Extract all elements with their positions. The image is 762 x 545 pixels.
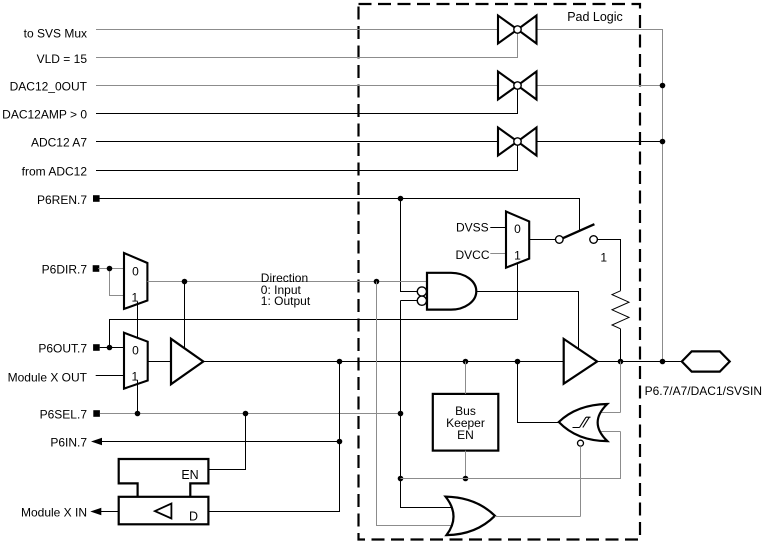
enable bubble of U3 <box>578 440 584 446</box>
wire: P6OUT.7 to mux input 0 <box>100 347 124 349</box>
wire: analog bus vertical to pad node <box>662 29 664 362</box>
mux M3 (pull-up/pull-down select) <box>506 212 529 268</box>
junction dot analog bus/pad row <box>660 359 666 365</box>
wire: from ADC12 control row up to T3 gate <box>96 145 518 170</box>
svg-text:VLD = 15: VLD = 15 <box>37 52 88 66</box>
mux M1 (P6DIR direction select) <box>124 253 147 309</box>
svg-text:0: 0 <box>132 264 139 278</box>
svg-text:to SVS Mux: to SVS Mux <box>24 26 87 40</box>
AND gate G1 (pull resistor enable) <box>427 273 476 310</box>
junction dot keeper row/stub <box>463 476 469 482</box>
junction dot P6SEL/EN latch branch <box>243 411 249 417</box>
junction dot P6DIR input <box>107 266 113 272</box>
wire: P6DIR.7 to mux input 0 <box>98 268 124 270</box>
wire: Module X OUT to mux input 1 <box>96 375 124 377</box>
wire: ADC12 A7 row to T3 input <box>96 141 498 143</box>
pad driver U2 <box>564 339 597 384</box>
junction dot Direction/keeper branch <box>374 279 380 285</box>
mux M2 (P6OUT / Module X OUT select) <box>124 333 148 389</box>
junction dot resistor/pad row <box>618 359 624 365</box>
wire: input net vertical to D latch <box>208 362 339 512</box>
junction dot output net / schmitt tip branch <box>515 359 521 365</box>
output buffer U1 (pad drive path) <box>171 339 203 384</box>
bubble on AND input 2 <box>417 296 426 305</box>
svg-text:P6.7/A7/DAC1/SVSIN: P6.7/A7/DAC1/SVSIN <box>645 384 762 398</box>
wire: DAC12_0OUT row to T2 input <box>96 85 498 87</box>
wire: P6REN.7 row to switch lever <box>100 199 580 231</box>
junction dot T2 output/analog bus <box>660 83 666 89</box>
junction dot P6REN/AND branch <box>398 196 404 202</box>
hysteresis symbol inside U3 <box>573 417 591 427</box>
bubble on AND input 1 <box>417 287 426 296</box>
junction dot P6SEL/mux select <box>135 411 141 417</box>
wire: P6REN branch down to AND input 1 <box>401 199 418 292</box>
resistor R1 (pull-up/pull-down) <box>612 291 629 329</box>
transmission gate T3 (ADC12 A7) <box>498 128 537 156</box>
svg-text:P6SEL.7: P6SEL.7 <box>40 408 88 422</box>
wire: bus keeper bottom stub to keeper row <box>465 451 467 479</box>
svg-text:P6OUT.7: P6OUT.7 <box>38 341 87 355</box>
wire: P6OUT branch up and right to pull mux select <box>110 263 518 347</box>
svg-text:Module X OUT: Module X OUT <box>8 370 88 384</box>
svg-text:Pad Logic: Pad Logic <box>567 10 623 24</box>
svg-text:EN: EN <box>181 468 198 482</box>
junction dot output net / module input branch <box>337 359 343 365</box>
junction dot P6OUT input <box>107 345 113 351</box>
wire: schmitt output to output net <box>518 362 559 423</box>
svg-text:P6DIR.7: P6DIR.7 <box>42 262 88 276</box>
switch S1 lever <box>563 224 595 238</box>
junction dot output net / bus keeper stub <box>463 359 469 365</box>
wire: P6DIR.7 elbow to mux input 1 <box>110 269 125 296</box>
svg-text:P6IN.7: P6IN.7 <box>50 435 87 449</box>
wire: resistor to pad node <box>620 329 622 362</box>
svg-text:1: 1 <box>600 250 607 264</box>
terminal square P6SEL.7 <box>93 410 100 417</box>
wire: D latch output to Module X IN <box>99 511 118 513</box>
svg-text:0: 0 <box>132 343 139 357</box>
wire: U3 enable from OR output <box>580 446 582 516</box>
wire: AND output to pad driver enable <box>476 292 578 349</box>
svg-text:P6REN.7: P6REN.7 <box>37 193 87 207</box>
OR gate G2 (input buffer / keeper enable) <box>446 497 495 535</box>
wire: select line from P6SEL up through M2 to M1 <box>137 302 139 338</box>
svg-text:EN: EN <box>457 428 474 442</box>
wire: schmitt lower input stub <box>601 431 621 433</box>
svg-text:1: Output: 1: Output <box>261 294 311 308</box>
Bus Keeper EN block <box>433 394 499 451</box>
junction dot T3 output/analog bus <box>660 139 666 145</box>
wire: buffer enable from Direction dot <box>184 282 186 349</box>
schmitt trigger input buffer U3 <box>559 404 608 441</box>
wire: keeper row to schmitt lower input <box>401 432 621 479</box>
svg-text:D: D <box>189 509 198 523</box>
wire: VLD = 15 control row up to T1 gate <box>96 33 518 57</box>
wire: T2 output <box>537 85 663 87</box>
wire: DAC12AMP > 0 control row up to T2 gate <box>96 89 518 113</box>
arrow to P6IN.7 <box>91 438 102 445</box>
wire: main output net row to pad driver <box>203 361 563 363</box>
wire: Direction branch to OR input 2 <box>377 282 454 526</box>
svg-text:DVSS: DVSS <box>456 221 489 235</box>
wire: Direction row (M1 output to AND gate) <box>147 281 426 283</box>
wire: P6SEL.7 row <box>100 413 401 415</box>
svg-text:1: 1 <box>514 248 521 262</box>
wire: T3 output <box>537 141 663 143</box>
wire: OR output to U3 enable drop <box>495 516 581 518</box>
wire: EN latch enable branch <box>208 414 245 470</box>
arrow to Module X IN <box>90 508 101 515</box>
svg-text:Module X IN: Module X IN <box>21 506 87 520</box>
svg-text:ADC12 A7: ADC12 A7 <box>31 135 87 149</box>
svg-text:DAC12AMP > 0: DAC12AMP > 0 <box>2 107 87 121</box>
terminal square P6DIR.7 <box>93 265 100 272</box>
transmission gate T1 (to SVS Mux) <box>498 16 537 44</box>
junction dot Direction/buffer enable <box>182 279 188 285</box>
wire: bus keeper top stub to output net <box>465 362 467 394</box>
D latch box (Module X IN path) <box>119 497 209 525</box>
pad P6.7 bonding pad hexagon <box>682 351 730 371</box>
wire: M2 output to output buffer <box>148 361 171 363</box>
wire: P6SEL net vertical (AND input 2 to OR input 1) <box>401 301 454 508</box>
Pad Logic dashed boundary box <box>359 4 641 540</box>
terminal square P6REN.7 <box>93 195 100 202</box>
wire: DVSS to pull mux input 0 <box>490 227 506 229</box>
wire: DVCC to pull mux input 1 <box>490 253 506 255</box>
junction dot P6SEL net / keeper row <box>398 476 404 482</box>
svg-text:DVCC: DVCC <box>455 248 489 262</box>
junction dot P6IN/input net <box>337 439 343 445</box>
wire: AND input 2 stub <box>401 300 418 302</box>
switch S1 contact right <box>590 236 598 244</box>
switch S1 (resistor enable) contact left <box>556 236 564 244</box>
wire: pad row (driver output to pad) <box>597 361 682 363</box>
transmission gate T2 (DAC12_0OUT) <box>498 72 537 100</box>
wire: switch to resistor <box>597 240 620 291</box>
EN latch box (input latch enable) <box>119 459 209 497</box>
svg-text:DAC12_0OUT: DAC12_0OUT <box>10 80 88 94</box>
svg-text:0: 0 <box>514 222 521 236</box>
wire: P6IN.7 row <box>100 441 340 443</box>
svg-text:from ADC12: from ADC12 <box>22 165 88 179</box>
wire: to SVS Mux row to T1 input <box>96 29 498 31</box>
terminal square P6OUT.7 <box>93 344 100 351</box>
junction dot P6SEL/keeper vertical <box>398 411 404 417</box>
wire: pad node down to schmitt upper input <box>620 362 622 413</box>
buffer triangle inside D latch <box>155 504 172 519</box>
wire: schmitt upper input stub <box>601 412 621 414</box>
wire: M3 output to switch <box>529 239 555 241</box>
wire: T1 output to analog bus column <box>537 29 663 31</box>
